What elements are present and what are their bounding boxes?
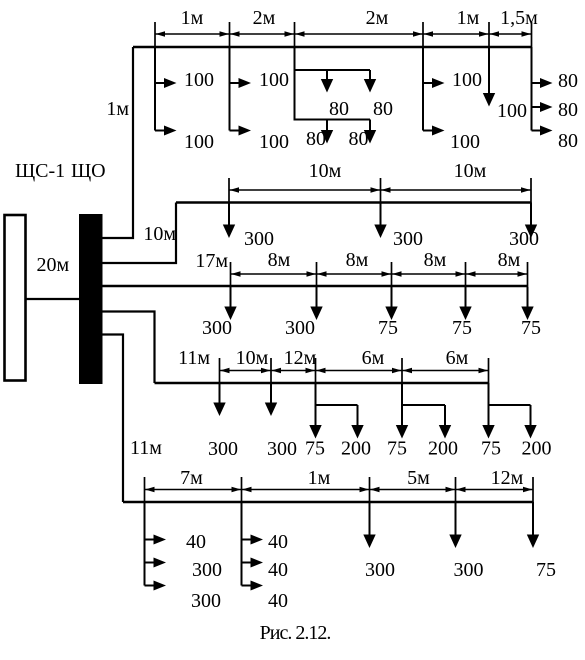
load arrow 80 [369, 70, 371, 84]
lower bracket bar [295, 119, 371, 121]
multi-load drop 40/300/300 [144, 502, 146, 586]
load arrow 40 [242, 539, 256, 541]
load arrow 300 [380, 203, 382, 230]
svg-text:40: 40 [268, 531, 288, 553]
svg-text:1,5м: 1,5м [500, 7, 538, 29]
load arrow 100 [155, 82, 169, 84]
lighting board ЩО (filled) [79, 214, 103, 384]
svg-text:200: 200 [341, 438, 371, 460]
svg-text:12м: 12м [491, 467, 524, 489]
wire 20м supply link [26, 298, 80, 300]
svg-text:80: 80 [349, 128, 369, 150]
svg-text:6м: 6м [446, 347, 469, 369]
load arrow 40 [145, 539, 159, 541]
load arrow 300 [316, 287, 318, 311]
svg-text:40: 40 [268, 590, 288, 612]
svg-text:80: 80 [558, 130, 578, 152]
wire step 10м to feeder 2 [103, 203, 177, 264]
wire riser 11м to feeder 5 [103, 335, 124, 503]
svg-text:75: 75 [521, 317, 541, 339]
dimension line feeder 1 [155, 33, 532, 35]
svg-text:300: 300 [208, 438, 238, 460]
svg-text:300: 300 [191, 590, 221, 612]
dimension line feeder 3 [231, 273, 528, 275]
load arrow 80 [369, 120, 371, 135]
svg-text:11м: 11м [130, 437, 162, 459]
svg-text:8м: 8м [424, 249, 447, 271]
svg-text:10м: 10м [236, 347, 269, 369]
load arrow 80 [326, 70, 328, 84]
load arrow 100 mid [488, 47, 490, 98]
dimension line feeder 5 [145, 489, 534, 491]
load arrow 100 [423, 130, 437, 132]
svg-text:75: 75 [536, 559, 556, 581]
load arrow 300 [145, 562, 159, 564]
svg-text:5м: 5м [407, 467, 430, 489]
svg-text:80: 80 [558, 70, 578, 92]
svg-text:300: 300 [202, 317, 232, 339]
load arrow 75 [465, 287, 467, 311]
svg-text:200: 200 [522, 438, 552, 460]
load arrow 300 [455, 502, 457, 539]
svg-text:40: 40 [186, 531, 206, 553]
svg-text:75: 75 [305, 438, 325, 460]
svg-text:100: 100 [259, 69, 289, 91]
svg-text:10м: 10м [143, 223, 176, 245]
load arrow 80 [532, 106, 545, 108]
wire step to feeder 4 [103, 312, 155, 384]
svg-text:2м: 2м [366, 7, 389, 29]
svg-text:80: 80 [558, 99, 578, 121]
drop at second 1м tick: two 100 loads [422, 47, 424, 131]
svg-text:10м: 10м [309, 160, 342, 182]
svg-text:300: 300 [393, 228, 423, 250]
drop at 1м tick: two 100 loads [154, 47, 156, 131]
load arrow 40 [242, 585, 256, 587]
load arrow 300 [530, 203, 532, 230]
svg-text:12м: 12м [284, 347, 317, 369]
svg-text:10м: 10м [454, 160, 487, 182]
load arrow 75 [391, 287, 393, 311]
svg-text:75: 75 [481, 438, 501, 460]
feeder line 2 [176, 201, 531, 203]
svg-text:100: 100 [184, 131, 214, 153]
svg-text:8м: 8м [346, 249, 369, 271]
svg-text:40: 40 [268, 559, 288, 581]
feeder line 1 [133, 46, 532, 49]
load arrow 75 [527, 287, 529, 311]
svg-text:75: 75 [378, 317, 398, 339]
svg-text:100: 100 [259, 131, 289, 153]
svg-text:100: 100 [452, 69, 482, 91]
load arrow 300 [145, 585, 159, 587]
end drop: three 80 loads [531, 47, 533, 131]
svg-text:7м: 7м [180, 467, 203, 489]
load arrow 300 [230, 287, 232, 311]
svg-text:1м: 1м [106, 98, 129, 120]
svg-text:75: 75 [452, 317, 472, 339]
load arrow 100 [423, 82, 437, 84]
dimension line feeder 4 [220, 370, 489, 372]
bracket drop 75/200 [401, 383, 403, 430]
svg-text:80: 80 [373, 98, 393, 120]
svg-text:300: 300 [244, 228, 274, 250]
multi-load drop 40/40/40 [241, 502, 243, 586]
load arrow 75 [532, 502, 534, 539]
svg-text:2м: 2м [253, 7, 276, 29]
svg-text:300: 300 [454, 559, 484, 581]
svg-text:6м: 6м [362, 347, 385, 369]
svg-text:100: 100 [184, 69, 214, 91]
svg-text:1м: 1м [308, 467, 331, 489]
svg-text:80: 80 [329, 98, 349, 120]
bracket drop 75/200 [488, 383, 490, 430]
wire riser 1м to feeder 1 [103, 47, 134, 238]
upper bracket bar [295, 69, 371, 71]
svg-text:11м: 11м [178, 347, 210, 369]
svg-text:20м: 20м [37, 254, 70, 276]
svg-text:ЩС-1: ЩС-1 [15, 160, 65, 182]
svg-text:1м: 1м [181, 7, 204, 29]
svg-text:100: 100 [497, 100, 527, 122]
dimension line feeder 2 [229, 189, 531, 191]
bracket drop 75/200 [315, 383, 317, 430]
svg-text:300: 300 [267, 438, 297, 460]
feeder line 5 [123, 501, 533, 503]
svg-text:Рис. 2.12.: Рис. 2.12. [260, 622, 331, 644]
svg-text:ЩО: ЩО [71, 160, 106, 182]
load arrow 100 [155, 130, 169, 132]
load arrow 100 [230, 130, 244, 132]
load arrow 300 [219, 383, 221, 407]
load arrow 40 [242, 562, 256, 564]
svg-text:17м: 17м [195, 250, 228, 272]
load arrow 300 [270, 383, 272, 407]
load arrow 300 [369, 502, 371, 539]
load arrow 80 [532, 130, 545, 132]
svg-text:100: 100 [450, 131, 480, 153]
svg-text:200: 200 [428, 438, 458, 460]
svg-text:1м: 1м [457, 7, 480, 29]
svg-text:80: 80 [306, 128, 326, 150]
drop at 2м tick: two 100 loads [229, 47, 231, 131]
load arrow 300 [228, 203, 230, 230]
feeder line 4 [155, 382, 489, 384]
svg-text:300: 300 [192, 559, 222, 581]
load arrow 100 [230, 82, 244, 84]
load arrow 80 [326, 120, 328, 135]
svg-text:8м: 8м [268, 249, 291, 271]
svg-text:8м: 8м [498, 249, 521, 271]
svg-text:300: 300 [285, 317, 315, 339]
supply board ЩС-1 [5, 215, 26, 381]
bracket drop with four 80 loads [294, 47, 296, 121]
load arrow 80 [532, 82, 545, 84]
feeder line 3 [103, 285, 528, 288]
svg-text:75: 75 [387, 438, 407, 460]
svg-text:300: 300 [509, 228, 539, 250]
svg-text:300: 300 [365, 559, 395, 581]
